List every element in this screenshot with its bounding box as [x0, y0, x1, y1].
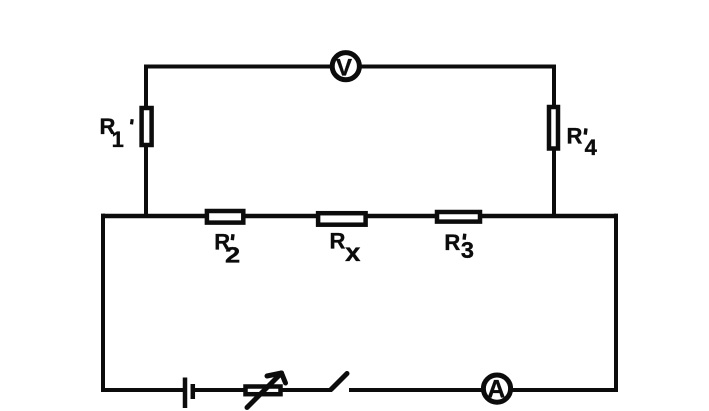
resistor R4: [549, 107, 558, 149]
battery cell short plate: [191, 384, 196, 399]
label R4': [567, 124, 598, 160]
wire top loop: left vertical, top horizontal, right vertical: [146, 67, 554, 216]
wire bottom: battery to switch: [193, 388, 332, 392]
wire middle horizontal rail: [103, 214, 616, 219]
resistor R2: [207, 211, 243, 223]
resistor R1: [142, 108, 152, 145]
voltmeter V: [332, 53, 359, 82]
svg-text:x: x: [345, 239, 360, 267]
rheostat arrow: [247, 373, 286, 408]
label Rx: [330, 228, 361, 267]
battery cell long plate: [183, 378, 188, 409]
label R2': [214, 230, 240, 268]
wire outer left vertical: [101, 214, 105, 390]
ammeter A: [483, 375, 510, 403]
wire bottom: switch to right corner: [349, 388, 618, 392]
svg-text:R: R: [444, 230, 460, 255]
svg-text:A: A: [487, 375, 505, 403]
label R3': [444, 230, 474, 263]
svg-text:R: R: [330, 228, 346, 253]
svg-text:3: 3: [461, 237, 474, 263]
svg-text:4: 4: [585, 135, 598, 160]
switch lever: [331, 374, 347, 390]
wire outer right vertical: [614, 214, 618, 390]
svg-text:1: 1: [112, 127, 124, 152]
label R1': [100, 114, 133, 152]
svg-text:V: V: [336, 55, 352, 82]
rheostat body: [246, 387, 281, 395]
resistor Rx: [318, 213, 366, 225]
svg-text:R: R: [567, 124, 583, 149]
svg-text:2: 2: [225, 243, 240, 268]
resistor R3: [437, 212, 480, 222]
wire bottom: left corner to battery: [101, 388, 185, 392]
